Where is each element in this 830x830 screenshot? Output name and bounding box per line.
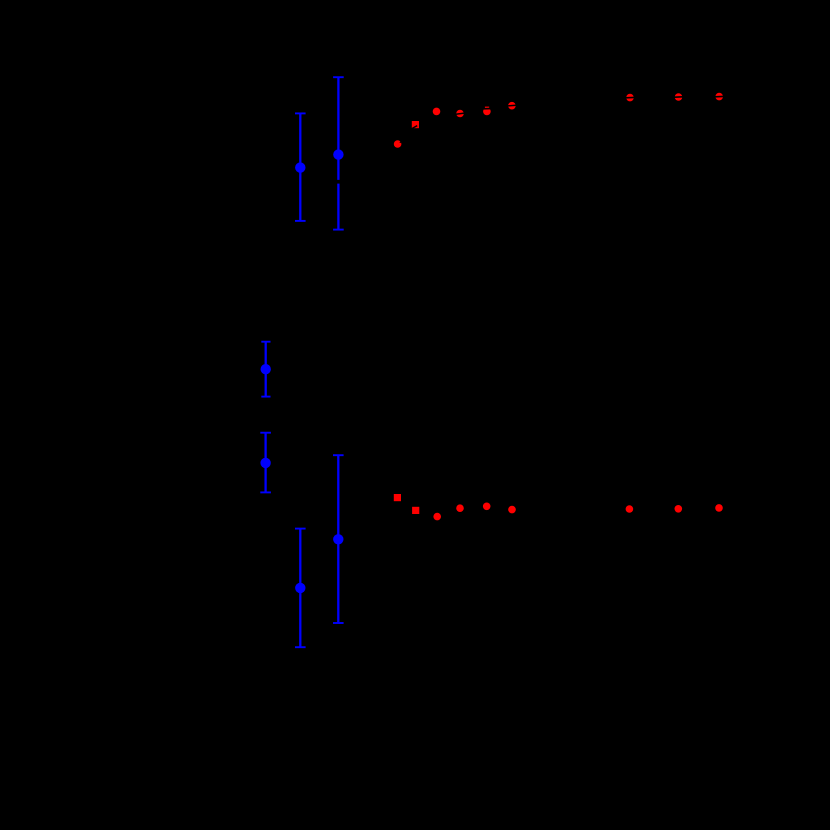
blue error bar B5: [333, 455, 344, 623]
blue error bar B3: [261, 342, 270, 397]
blue error bar B2 (with black line gap at y~181.7): [333, 77, 344, 229]
red points, bottom panel: [394, 494, 401, 501]
red points, top panel: [394, 140, 402, 148]
blue error bar B4: [260, 433, 271, 493]
blue error bar B6: [295, 529, 306, 648]
blue error bar B1: [295, 113, 306, 220]
